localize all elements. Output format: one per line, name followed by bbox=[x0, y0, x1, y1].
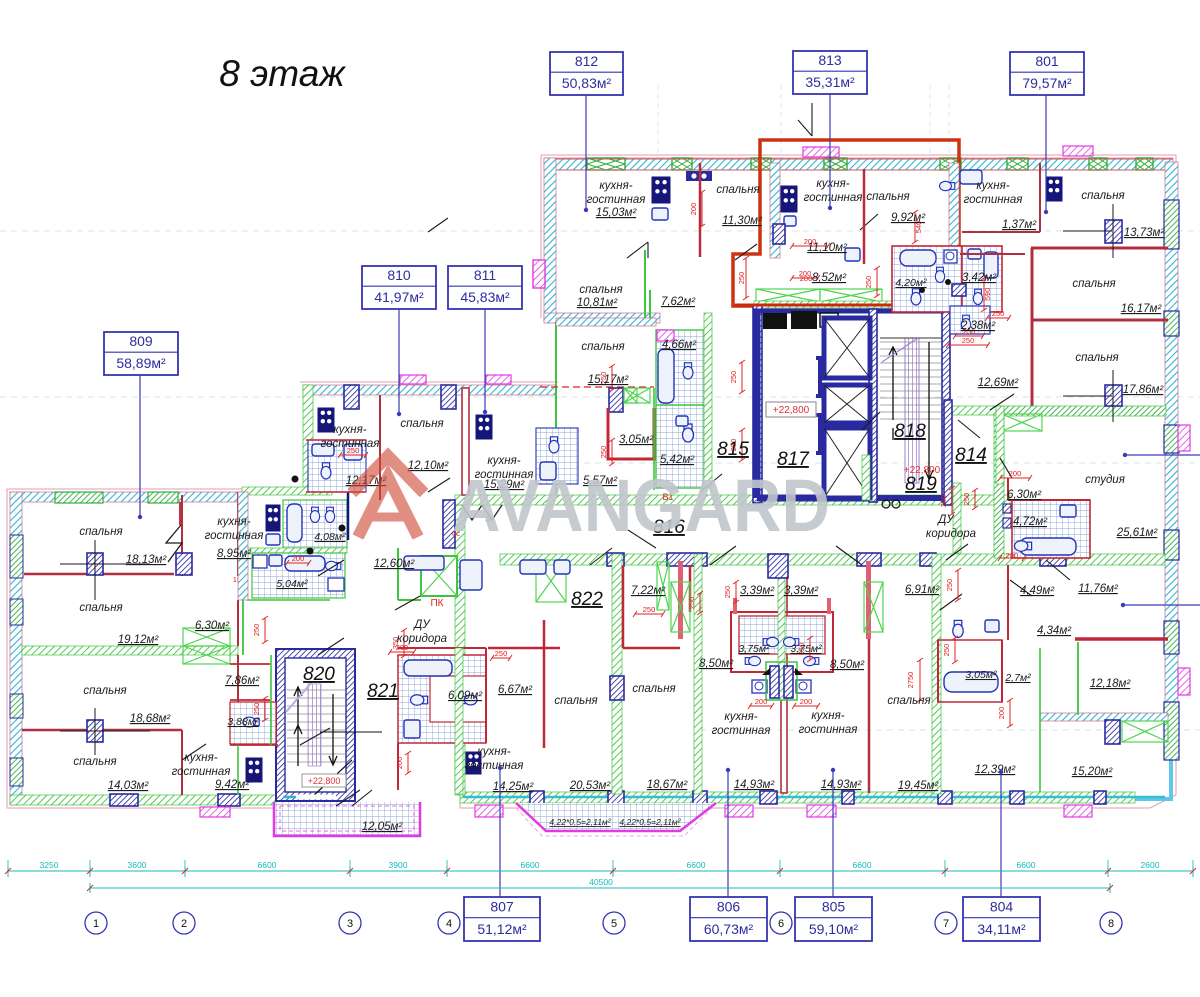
wall 18_13-19_12 red bbox=[24, 573, 174, 576]
svg-text:200: 200 bbox=[689, 203, 698, 216]
svg-text:8 этаж: 8 этаж bbox=[219, 53, 346, 94]
green X panels flanking pods bbox=[671, 582, 690, 632]
dimension line main bbox=[8, 870, 1193, 872]
right exterior wall bbox=[1165, 162, 1178, 760]
svg-text:11,10м²: 11,10м² bbox=[807, 242, 848, 254]
svg-text:3,42м²: 3,42м² bbox=[962, 272, 997, 284]
svg-text:4,72м²: 4,72м² bbox=[1013, 516, 1048, 528]
svg-text:6,30м²: 6,30м² bbox=[1007, 489, 1042, 501]
svg-text:15,20м²: 15,20м² bbox=[1072, 766, 1114, 778]
svg-text:18,13м²: 18,13м² bbox=[126, 554, 168, 566]
bottom wall window piers bbox=[530, 791, 544, 804]
bath 4_72 sink bbox=[1060, 505, 1076, 517]
svg-text:гостинная: гостинная bbox=[172, 766, 231, 778]
door 814 studio bbox=[860, 214, 1070, 580]
svg-text:806: 806 bbox=[717, 899, 741, 915]
svg-text:20,53м²: 20,53м² bbox=[569, 780, 612, 792]
svg-text:6600: 6600 bbox=[687, 860, 706, 870]
svg-text:3,39м²: 3,39м² bbox=[784, 585, 819, 597]
808 bath 5_04 tub horizontal bbox=[285, 556, 325, 571]
red dims 806 pods bbox=[750, 705, 772, 707]
elevator cell 1 bbox=[824, 318, 870, 378]
808 shower square bbox=[328, 578, 344, 591]
wall 811 bedroom divider bbox=[555, 322, 557, 495]
svg-text:200: 200 bbox=[755, 697, 768, 706]
svg-text:3,88м²: 3,88м² bbox=[227, 716, 259, 728]
svg-text:4,08м²: 4,08м² bbox=[314, 531, 346, 543]
stair 818 mid landing line bbox=[880, 337, 942, 339]
svg-text:25,61м²: 25,61м² bbox=[1116, 527, 1159, 539]
svg-text:250: 250 bbox=[864, 276, 873, 289]
I-beam pier 1 bbox=[816, 358, 825, 396]
svg-text:14,03м²: 14,03м² bbox=[108, 780, 150, 792]
navy pier between baths bbox=[952, 284, 966, 296]
svg-text:6600: 6600 bbox=[1017, 860, 1036, 870]
elevator cell 2 bbox=[824, 385, 870, 423]
kitchen sill 813 navy with dots bbox=[686, 171, 712, 181]
svg-text:200: 200 bbox=[800, 697, 813, 706]
svg-text:200: 200 bbox=[800, 274, 813, 283]
pods washers below bbox=[752, 680, 767, 693]
svg-text:кухня-: кухня- bbox=[976, 180, 1009, 192]
svg-text:гостинная: гостинная bbox=[321, 438, 380, 450]
dimension extension lines up bbox=[7, 860, 9, 866]
black dots bath bbox=[919, 287, 925, 293]
svg-text:6600: 6600 bbox=[521, 860, 540, 870]
svg-text:8,50м²: 8,50м² bbox=[699, 658, 734, 670]
svg-text:12,05м²: 12,05м² bbox=[362, 821, 404, 833]
door 819 entry bbox=[862, 412, 968, 560]
svg-text:4,34м²: 4,34м² bbox=[1037, 625, 1072, 637]
bath 4_72 checkered bbox=[1012, 500, 1090, 558]
dimension ticks bbox=[7, 866, 9, 877]
svg-text:820: 820 bbox=[303, 664, 335, 685]
door 816-815 entry bbox=[700, 474, 722, 492]
svg-text:250: 250 bbox=[962, 493, 971, 506]
svg-text:822: 822 bbox=[571, 589, 603, 610]
apartment box 804 bbox=[1000, 772, 1002, 897]
leader 11_76 to right edge bbox=[1123, 604, 1200, 606]
svg-text:250: 250 bbox=[962, 336, 975, 345]
bottom balcony dashes bbox=[516, 808, 712, 836]
central duct blocks bbox=[770, 666, 779, 698]
balcony 12_05 inner dash bbox=[280, 806, 414, 831]
walls around 7_86 3_88 bbox=[230, 664, 278, 745]
wall 14_03 right boundary zigzag bbox=[182, 655, 238, 795]
svg-text:спальня: спальня bbox=[73, 756, 116, 768]
820 +22,800 box bbox=[302, 774, 346, 787]
apartment box 806 bbox=[727, 770, 729, 897]
red dims core left2 bbox=[741, 362, 743, 392]
I-beam pier 2 bbox=[816, 415, 825, 453]
outer contour left block bbox=[7, 489, 292, 808]
809 kitchen corner walls bbox=[238, 655, 271, 795]
door 806 entry bbox=[710, 546, 862, 565]
svg-text:4: 4 bbox=[446, 918, 452, 930]
svg-text:14,93м²: 14,93м² bbox=[734, 779, 776, 791]
core 817 black equipment blocks bbox=[763, 313, 787, 329]
svg-text:5: 5 bbox=[611, 918, 617, 930]
svg-text:спальня: спальня bbox=[579, 284, 622, 296]
svg-text:кухня-: кухня- bbox=[599, 180, 632, 192]
808 washer and sink bbox=[253, 555, 267, 568]
navy pier left of 822 corridor bbox=[443, 500, 455, 548]
svg-text:15,03м²: 15,03м² bbox=[596, 207, 638, 219]
in-room pier 13_73 bbox=[1105, 220, 1122, 243]
svg-text:6,30м²: 6,30м² bbox=[195, 620, 230, 632]
wall 7_62 left bbox=[644, 250, 646, 322]
svg-text:41,97м²: 41,97м² bbox=[374, 289, 424, 305]
svg-text:10,81м²: 10,81м² bbox=[577, 297, 619, 309]
right wall window piers green bbox=[1164, 200, 1179, 249]
821 bath region checkered bbox=[398, 655, 486, 743]
808 bath 4_08 checkered bbox=[283, 500, 347, 548]
808 kitchen sink bbox=[266, 534, 280, 545]
right rooms vertical wall bbox=[1031, 248, 1034, 406]
guide dashed line mid bbox=[0, 396, 1200, 398]
wall 801 left divider bbox=[949, 163, 959, 298]
left wall of 810 block bbox=[303, 385, 313, 495]
808 bath 4_08 tub vertical bbox=[287, 504, 302, 542]
svg-text:200: 200 bbox=[1006, 551, 1019, 560]
813 bath tub horizontal bbox=[900, 250, 936, 266]
red walls 804 bath bbox=[938, 640, 1002, 702]
bottom wall of left block bbox=[10, 795, 290, 805]
svg-text:кухня-: кухня- bbox=[477, 746, 510, 758]
balcony 12_05 under 820 bbox=[274, 802, 420, 836]
svg-text:4,20м²: 4,20м² bbox=[895, 277, 927, 289]
apartment box 807 bbox=[499, 768, 501, 897]
red dims right zone bbox=[957, 570, 959, 600]
svg-text:кухня-: кухня- bbox=[724, 711, 757, 723]
svg-text:спальня: спальня bbox=[79, 526, 122, 538]
green xbox corridor left bbox=[536, 560, 566, 602]
svg-text:200: 200 bbox=[395, 757, 404, 770]
814 wall vertical green right bbox=[996, 406, 1004, 484]
820 cyan sill bottom bbox=[283, 796, 305, 799]
red dims vertical 815 bbox=[745, 258, 747, 298]
svg-text:34,11м²: 34,11м² bbox=[977, 921, 1026, 937]
green wall 12_18 left bbox=[1077, 642, 1079, 715]
svg-text:805: 805 bbox=[822, 899, 846, 915]
bottom balcony trapezoid bbox=[516, 803, 716, 831]
svg-text:11,30м²: 11,30м² bbox=[722, 215, 763, 227]
svg-text:спальня: спальня bbox=[1081, 190, 1124, 202]
bath 815 toilet1 bbox=[683, 424, 694, 442]
wall 815 right of 3_05 bbox=[653, 388, 655, 490]
svg-text:+22,800: +22,800 bbox=[904, 465, 941, 476]
svg-text:18,67м²: 18,67м² bbox=[647, 779, 689, 791]
sink next to wall 864 bbox=[845, 248, 860, 261]
svg-text:спальня: спальня bbox=[1072, 278, 1115, 290]
apartment box 810 bbox=[398, 309, 400, 414]
door 804 bbox=[940, 580, 1032, 610]
leader studio to right edge bbox=[1125, 454, 1200, 456]
top wall of 810-811 block bbox=[303, 385, 556, 395]
810 bath cluster bbox=[308, 440, 366, 492]
818 lower green lobby wall bbox=[862, 455, 870, 500]
svg-text:250: 250 bbox=[729, 371, 738, 384]
810 red partitions bbox=[306, 440, 366, 492]
+22800 box 817 bbox=[766, 402, 816, 417]
811 bath cluster bbox=[536, 428, 578, 484]
821 bath white inner bbox=[430, 676, 486, 722]
bottom wall cyan floor line bbox=[463, 796, 1165, 799]
kitchen 807 bbox=[466, 752, 481, 774]
svg-text:3250: 3250 bbox=[40, 860, 59, 870]
pink hatches below bottom wall bbox=[475, 805, 503, 817]
813 sink bbox=[784, 216, 796, 226]
svg-text:7,62м²: 7,62м² bbox=[661, 296, 696, 308]
svg-text:79,57м²: 79,57м² bbox=[1022, 75, 1072, 91]
svg-text:821: 821 bbox=[367, 681, 399, 702]
801 small bath fixtures bbox=[960, 170, 982, 184]
svg-text:6: 6 bbox=[778, 918, 784, 930]
820 up arrow bbox=[294, 687, 302, 766]
svg-text:кухня-: кухня- bbox=[184, 752, 217, 764]
808 bath 4_08 toilets bbox=[310, 507, 319, 522]
svg-text:8,52м²: 8,52м² bbox=[812, 272, 847, 284]
svg-text:40500: 40500 bbox=[589, 877, 613, 887]
wall between 810 rooms bbox=[379, 395, 381, 500]
pink hatch right wall outside bbox=[1178, 425, 1190, 451]
svg-text:3,39м²: 3,39м² bbox=[740, 585, 775, 597]
svg-text:250: 250 bbox=[737, 272, 746, 285]
813 washer bbox=[944, 250, 957, 263]
svg-text:спальня: спальня bbox=[866, 191, 909, 203]
red walls around 6_30 bbox=[1008, 478, 1090, 500]
svg-text:гостинная: гостинная bbox=[799, 724, 858, 736]
svg-text:35,31м²: 35,31м² bbox=[805, 74, 855, 90]
left wall of 812 block bbox=[544, 158, 556, 322]
813 bath checkered region bbox=[892, 246, 962, 312]
door 801 entry bbox=[958, 394, 1014, 438]
guide dashed line right rooms bbox=[700, 729, 1200, 731]
svg-text:200: 200 bbox=[292, 554, 305, 563]
core top navy wall bbox=[753, 309, 950, 314]
svg-text:коридора: коридора bbox=[926, 528, 976, 540]
svg-text:кухня-: кухня- bbox=[333, 424, 366, 436]
svg-text:7: 7 bbox=[943, 918, 949, 930]
wall pier 18_68 bbox=[87, 720, 103, 742]
red dims 6_30 zone bbox=[1000, 477, 1030, 479]
svg-text:9,42м²: 9,42м² bbox=[215, 779, 250, 791]
svg-text:спальня: спальня bbox=[79, 602, 122, 614]
door 812 entry bbox=[627, 242, 648, 258]
wall y320 under 10_81 bbox=[556, 318, 656, 326]
wall 19_12-18_68 green band bbox=[22, 646, 238, 655]
svg-text:2600: 2600 bbox=[1141, 860, 1160, 870]
svg-text:6,91м²: 6,91м² bbox=[905, 584, 940, 596]
pink hatch below left block bottom wall bbox=[200, 807, 230, 817]
svg-text:6600: 6600 bbox=[853, 860, 872, 870]
svg-text:спальня: спальня bbox=[632, 683, 675, 695]
vertical wall right of left rooms bbox=[181, 495, 183, 576]
bath 815 divider bbox=[656, 404, 704, 406]
door zigzag near 7_62 bbox=[798, 103, 812, 136]
green wall left block divider lower bbox=[242, 600, 244, 655]
821 walls bbox=[398, 648, 486, 790]
svg-text:4,49м²: 4,49м² bbox=[1020, 585, 1055, 597]
cross line through pier 18_13 bbox=[60, 563, 150, 565]
vertical red wall 822-spalnya bbox=[543, 620, 546, 748]
wall 7_22 red outline bbox=[623, 565, 690, 648]
wall right of bath 815 bbox=[704, 313, 712, 488]
814 navy west wall bbox=[944, 400, 952, 505]
green hatched band under 813 bbox=[754, 301, 957, 308]
red dims 821 right bbox=[492, 657, 510, 659]
svg-text:19,12м²: 19,12м² bbox=[118, 634, 160, 646]
guide dashed line in-plan bbox=[540, 462, 1200, 464]
bath 804 fixtures bbox=[938, 640, 1002, 702]
820 door arc bottom bbox=[312, 760, 352, 797]
svg-text:2,7м²: 2,7м² bbox=[1004, 672, 1031, 684]
red dims 805 right bbox=[809, 638, 811, 660]
svg-text:3: 3 bbox=[347, 918, 353, 930]
red dashed wall 815 bbox=[540, 386, 654, 388]
red dim 250 at bath left bbox=[876, 268, 878, 296]
svg-text:1: 1 bbox=[93, 918, 99, 930]
svg-text:250: 250 bbox=[992, 309, 1005, 318]
807 area fixtures near 822 bbox=[520, 560, 546, 574]
central hatched pier corridor wall bbox=[768, 554, 788, 578]
wall 812 kitchen-bedroom divider bbox=[699, 163, 702, 257]
svg-text:250: 250 bbox=[599, 446, 608, 459]
svg-text:гостинная: гостинная bbox=[804, 192, 863, 204]
elevator shaft wall east bbox=[869, 309, 877, 502]
svg-text:спальня: спальня bbox=[83, 685, 126, 697]
svg-text:250: 250 bbox=[942, 644, 951, 657]
svg-text:59,10м²: 59,10м² bbox=[809, 921, 859, 937]
svg-text:3900: 3900 bbox=[389, 860, 408, 870]
top wall of left block bbox=[10, 492, 247, 502]
svg-text:18,68м²: 18,68м² bbox=[130, 713, 172, 725]
wall right of 19_12 bbox=[237, 492, 239, 576]
svg-text:5,04м²: 5,04м² bbox=[276, 578, 308, 590]
svg-text:811: 811 bbox=[474, 267, 497, 283]
apartment box 809 bbox=[139, 375, 141, 517]
pods outer red walls bbox=[731, 612, 833, 672]
door 810 entry bbox=[428, 218, 450, 492]
svg-text:250: 250 bbox=[939, 495, 948, 508]
svg-text:58,89м²: 58,89м² bbox=[116, 355, 166, 371]
svg-text:12,69м²: 12,69м² bbox=[978, 377, 1020, 389]
820 down arrow bbox=[329, 694, 337, 765]
pods toilets upper pair bbox=[763, 637, 778, 646]
studio left wall bbox=[994, 406, 1004, 558]
svg-text:6600: 6600 bbox=[258, 860, 277, 870]
wall between 14_93 rooms bbox=[781, 565, 787, 793]
820 stair diagonal rail bbox=[286, 682, 312, 712]
wall under 10_81 vertical bbox=[649, 290, 651, 325]
bath 3_88 toilet bbox=[243, 717, 259, 727]
corridor bottom wall window piers bbox=[607, 553, 624, 566]
core 818 bottom landing walls bbox=[877, 495, 950, 501]
red dims misc1 bbox=[701, 192, 703, 226]
808 black door dots bbox=[292, 476, 299, 483]
svg-text:804: 804 bbox=[990, 899, 1014, 915]
svg-text:спальня: спальня bbox=[554, 695, 597, 707]
core west wall bbox=[753, 305, 762, 503]
apartment box 812 bbox=[585, 95, 587, 210]
bath 815 toilet2 bbox=[683, 363, 693, 379]
left block top wall window piers bbox=[55, 492, 103, 503]
808 bath 5_04 toilet bbox=[326, 561, 341, 570]
svg-text:812: 812 bbox=[575, 53, 599, 69]
kitchen 810 bbox=[318, 408, 334, 432]
grid bubbles 1-8 bbox=[85, 912, 107, 934]
stair 818 flight hatched strip bbox=[905, 338, 919, 483]
svg-text:гостинная: гостинная bbox=[465, 760, 524, 772]
svg-text:813: 813 bbox=[818, 52, 842, 68]
808 navy wall right of bath bbox=[347, 489, 350, 540]
wall right of 804 bath bbox=[1007, 565, 1009, 640]
808 kitchen block bbox=[266, 505, 280, 531]
svg-text:6,67м²: 6,67м² bbox=[498, 684, 533, 696]
stair 818 treads bbox=[880, 341, 941, 343]
svg-text:ДУ: ДУ bbox=[936, 514, 955, 526]
small fixtures 820 left lobby bbox=[404, 556, 444, 570]
svg-text:студия: студия bbox=[1085, 474, 1125, 486]
red pilasters pods bbox=[678, 561, 683, 639]
svg-text:спальня: спальня bbox=[400, 418, 443, 430]
guide vline 801 area bbox=[948, 85, 950, 160]
809 kitchen block bbox=[246, 758, 262, 782]
kitchen 813 bbox=[781, 186, 797, 212]
top wall window piers bbox=[587, 158, 625, 170]
black door wedges pods bbox=[762, 668, 770, 675]
apartment box 811 bbox=[484, 309, 486, 412]
bottom exterior wall main bbox=[460, 792, 1135, 803]
svg-text:250: 250 bbox=[687, 597, 696, 610]
svg-text:17,86м²: 17,86м² bbox=[1123, 384, 1165, 396]
red wall 813 bath left bbox=[863, 169, 866, 264]
green xboxes stack left bbox=[183, 628, 230, 646]
core 817 outer walls bbox=[757, 309, 877, 498]
wall between 810 and 811 bbox=[462, 388, 469, 495]
svg-text:8,50м²: 8,50м² bbox=[830, 659, 865, 671]
door left rooms bbox=[300, 560, 344, 745]
green xbox 814 top bbox=[1002, 414, 1042, 431]
wall 804 left green bbox=[932, 554, 941, 794]
820 treads bbox=[287, 689, 345, 691]
svg-text:гостинная: гостинная bbox=[964, 194, 1023, 206]
bath 815 checkered floor bbox=[656, 330, 704, 488]
svg-text:6,09м²: 6,09м² bbox=[448, 690, 483, 702]
window pier on 822 right wall bbox=[610, 676, 624, 700]
left mid wall 6_30 area bbox=[237, 600, 239, 646]
pink hatch above 4_66 bbox=[657, 330, 674, 341]
guide dashed line upper bbox=[0, 230, 1200, 232]
corridor 816 top wall bbox=[455, 495, 1010, 505]
svg-text:12,39м²: 12,39м² bbox=[975, 764, 1017, 776]
svg-text:14,93м²: 14,93м² bbox=[821, 779, 863, 791]
wall 12_39 and 15_20 divider vertical bbox=[1039, 648, 1041, 792]
svg-text:809: 809 bbox=[129, 333, 153, 349]
red dims core left3 bbox=[741, 430, 743, 460]
kitchen 811 bbox=[476, 415, 492, 439]
820 door opening bottom bbox=[296, 795, 336, 800]
svg-text:ПК: ПК bbox=[430, 598, 443, 609]
cross line pier 18_68 bbox=[60, 730, 150, 732]
svg-text:45,83м²: 45,83м² bbox=[460, 289, 510, 305]
801 bath toilet bbox=[973, 289, 982, 304]
door 822 entry bbox=[590, 530, 656, 565]
svg-text:1,37м²: 1,37м² bbox=[1002, 219, 1037, 231]
svg-text:гостинная: гостинная bbox=[712, 725, 771, 737]
svg-text:12,10м²: 12,10м² bbox=[408, 460, 450, 472]
PK surrounding walls bbox=[398, 548, 421, 600]
